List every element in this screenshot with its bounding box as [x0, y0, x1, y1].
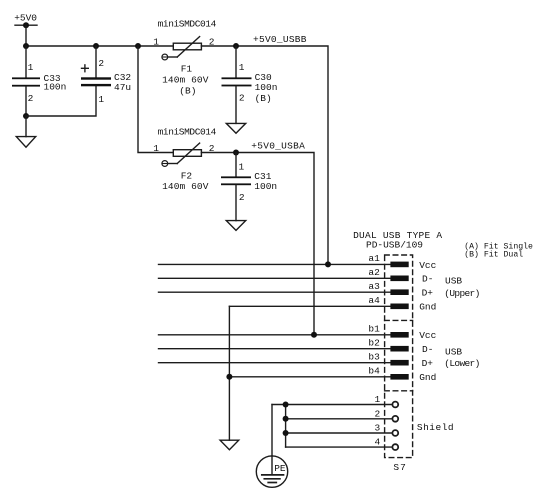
capacitor C31 100n — [221, 153, 277, 221]
wire shield 4 — [286, 446, 393, 448]
pin shield 4 — [374, 437, 398, 450]
wire +5V0 down to rail — [25, 25, 27, 46]
svg-text:D-: D- — [422, 344, 433, 355]
svg-text:(B) Fit Dual: (B) Fit Dual — [464, 249, 523, 259]
svg-text:(Upper): (Upper) — [444, 288, 479, 299]
pin a1 — [368, 253, 408, 267]
wire F2 branch — [138, 46, 173, 153]
svg-text:F2: F2 — [181, 170, 193, 181]
pin shield 1 — [374, 394, 398, 407]
svg-text:a2: a2 — [368, 267, 380, 278]
pin a3 — [368, 281, 408, 295]
svg-text:(B): (B) — [179, 86, 196, 97]
wire a2 D- upper — [159, 277, 391, 279]
label USB (Lower) — [444, 347, 479, 369]
node rail/C30 junction — [233, 43, 239, 49]
svg-text:a4: a4 — [368, 295, 380, 306]
svg-text:S7: S7 — [393, 462, 406, 473]
capacitor C33 100n — [12, 46, 66, 116]
capacitor C30 100n — [222, 46, 278, 123]
node rail/C31 junction — [233, 150, 239, 156]
wire b3 D+ lower — [159, 362, 391, 364]
pin a4 — [368, 295, 408, 309]
svg-text:F1: F1 — [181, 64, 193, 75]
svg-text:Vcc: Vcc — [419, 330, 436, 341]
node C33 bottom junction — [23, 113, 29, 119]
svg-text:(Lower): (Lower) — [444, 358, 479, 369]
wire C32 bottom to C33 bottom — [26, 86, 96, 116]
svg-text:1: 1 — [153, 143, 159, 154]
wire b4 Gnd lower — [229, 376, 390, 378]
wire b2 D- lower — [159, 348, 391, 350]
svg-text:b3: b3 — [368, 352, 380, 363]
node shield1 junction — [283, 402, 289, 408]
svg-text:2: 2 — [239, 192, 245, 203]
wire a3 D+ upper — [159, 291, 391, 293]
svg-text:D-: D- — [422, 274, 433, 285]
wire shield 1 — [272, 404, 392, 406]
svg-text:PE: PE — [274, 463, 286, 474]
pin b4 — [368, 366, 408, 380]
wire F1 to +5V0_USBB corner down to a1 — [201, 46, 328, 264]
svg-text:1: 1 — [153, 36, 159, 47]
fuse F1 miniSMDC014 — [153, 18, 216, 96]
svg-text:Gnd: Gnd — [419, 302, 436, 313]
node b4/gnd bus junction — [226, 374, 232, 380]
pin b3 — [368, 352, 408, 366]
svg-text:2: 2 — [98, 58, 104, 69]
node shield3 junction — [283, 430, 289, 436]
svg-text:(B): (B) — [255, 93, 272, 104]
svg-text:100n: 100n — [44, 82, 67, 93]
wire a4 Gnd upper — [229, 305, 390, 307]
node rail/C33 junction — [23, 43, 29, 49]
svg-text:a3: a3 — [368, 281, 380, 292]
fuse F2 miniSMDC014 — [153, 127, 216, 192]
svg-text:USB: USB — [445, 347, 462, 358]
svg-text:miniSMDC014: miniSMDC014 — [158, 127, 217, 138]
label USB (Upper) — [444, 275, 479, 298]
svg-text:2: 2 — [28, 93, 34, 104]
earth PE symbol — [256, 456, 287, 487]
svg-text:47u: 47u — [114, 82, 131, 93]
svg-text:1: 1 — [239, 62, 245, 73]
svg-text:4: 4 — [374, 437, 380, 448]
wire +5V0 rail — [26, 45, 173, 47]
svg-text:a1: a1 — [368, 253, 380, 264]
pin shield 2 — [374, 408, 398, 421]
svg-text:1: 1 — [28, 62, 34, 73]
svg-text:2: 2 — [374, 408, 380, 419]
svg-text:D+: D+ — [422, 288, 434, 299]
connector S7 dashed outline — [385, 255, 413, 458]
wire shield bus vertical — [285, 405, 287, 448]
svg-text:100n: 100n — [255, 82, 278, 93]
pin b2 — [368, 338, 408, 352]
svg-text:Shield: Shield — [417, 422, 454, 433]
capacitor C32 47u polarized — [81, 46, 131, 105]
node a1/+5V0_USBB junction — [325, 261, 331, 267]
node shield2 junction — [283, 416, 289, 422]
node rail/C32 junction — [93, 43, 99, 49]
svg-text:+5V0_USBA: +5V0_USBA — [251, 140, 305, 151]
wire a1 Vcc upper — [159, 263, 391, 265]
svg-text:140m 60V: 140m 60V — [162, 181, 209, 192]
wire gnd bus down — [228, 306, 230, 440]
svg-text:1: 1 — [239, 162, 245, 173]
pin shield 3 — [374, 423, 398, 436]
pin b1 — [368, 324, 408, 338]
wire F2 to +5V0_USBA corner down to b1 — [201, 153, 314, 335]
svg-text:b4: b4 — [368, 366, 380, 377]
node rail/F2 branch junction — [135, 43, 141, 49]
svg-text:1: 1 — [98, 94, 104, 105]
svg-text:3: 3 — [374, 423, 380, 434]
pin a2 — [368, 267, 408, 281]
svg-text:PD-USB/109: PD-USB/109 — [366, 239, 423, 250]
power +5V0 — [14, 12, 37, 28]
svg-text:1: 1 — [374, 394, 380, 405]
svg-text:USB: USB — [445, 275, 462, 286]
wire shield 3 — [286, 432, 393, 434]
svg-text:Gnd: Gnd — [419, 372, 436, 383]
svg-text:miniSMDC014: miniSMDC014 — [158, 18, 217, 29]
wire b1 Vcc lower — [159, 334, 391, 336]
svg-text:Vcc: Vcc — [419, 260, 436, 271]
svg-text:b2: b2 — [368, 338, 380, 349]
svg-text:2: 2 — [239, 93, 245, 104]
wire shield 2 — [286, 418, 393, 420]
ground below C31 — [226, 221, 245, 231]
svg-text:140m 60V: 140m 60V — [162, 75, 209, 86]
svg-text:D+: D+ — [422, 358, 434, 369]
svg-text:b1: b1 — [368, 324, 380, 335]
ground below gnd bus — [220, 440, 239, 450]
ground below C30 — [226, 123, 245, 133]
node b1/+5V0_USBA junction — [311, 332, 317, 338]
svg-text:+5V0: +5V0 — [14, 12, 37, 23]
wire shield1 corner down to PE — [271, 405, 273, 457]
svg-text:+5V0_USBB: +5V0_USBB — [253, 34, 307, 45]
ground below C33 — [16, 116, 35, 147]
svg-text:100n: 100n — [254, 181, 277, 192]
